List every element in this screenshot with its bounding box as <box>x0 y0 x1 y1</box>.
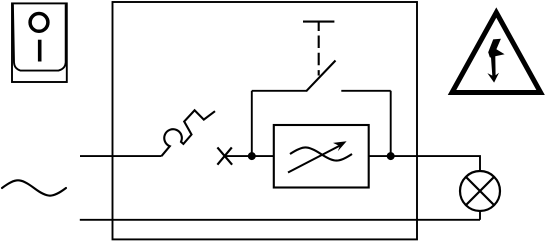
dimmer U1 sine <box>290 147 352 160</box>
AC source tilde <box>2 180 66 195</box>
lamp E1 cross <box>466 177 494 205</box>
X terminal mark <box>217 147 232 164</box>
breaker F1 blade with thermal bump and magnetic notch <box>162 110 216 156</box>
wire right contact down to node B <box>390 91 392 156</box>
wire node A up to switch contact <box>251 91 253 156</box>
antenna T bar <box>303 21 334 23</box>
wire L input <box>80 155 162 157</box>
rocker switch O marking <box>30 14 48 32</box>
antenna stem solid <box>318 22 320 31</box>
dimmer U1 variability arrow <box>288 145 342 173</box>
switch S2 right contact wire <box>341 90 390 92</box>
lamp E1 circle <box>460 171 500 211</box>
node A (left junction dot) <box>248 152 256 160</box>
wire N bottom <box>80 219 480 221</box>
switch S2 left contact wire <box>252 90 307 92</box>
enclosure box <box>113 2 418 239</box>
node B (right junction dot) <box>387 152 395 160</box>
wire dimmer output to lamp <box>369 156 480 171</box>
wire X to dimmer box <box>225 155 274 157</box>
dimmer U1 box <box>274 125 369 188</box>
rocker switch I marking <box>38 40 42 62</box>
switch S2 blade <box>306 61 335 92</box>
warning triangle <box>452 13 541 93</box>
lightning bolt <box>487 39 504 83</box>
wire lamp bottom stub <box>479 211 481 220</box>
rocker switch S1 outer body <box>12 3 67 82</box>
antenna stem dashed actuator link <box>318 36 320 76</box>
rocker switch S1 keycap <box>13 4 66 70</box>
